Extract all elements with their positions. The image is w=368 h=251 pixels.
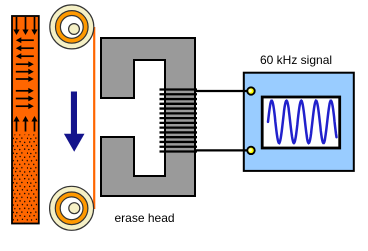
sine wave — [268, 101, 337, 143]
domain arrows: right group 1 — [16, 61, 34, 82]
terminal top — [247, 87, 254, 94]
tape strip (magnified view) — [12, 16, 39, 224]
signal generator box — [244, 73, 354, 171]
domain arrows: up group — [13, 116, 37, 132]
svg-text:erase head: erase head — [115, 211, 175, 225]
erased (demagnetized) tape section stipple — [13, 135, 38, 223]
erase head core — [101, 38, 195, 196]
domain arrows: right group 2 — [16, 88, 34, 109]
wire top — [196, 90, 248, 92]
wire bottom — [196, 149, 248, 151]
domain arrows: down group — [13, 17, 37, 35]
bottom roller — [50, 186, 94, 230]
terminal bottom — [247, 147, 254, 154]
svg-text:60 kHz signal: 60 kHz signal — [260, 53, 332, 67]
coil on core — [160, 90, 198, 152]
tape motion arrow — [64, 92, 85, 152]
tape line between rollers — [93, 27, 95, 209]
domain arrows: left group — [16, 37, 34, 59]
oscilloscope screen — [262, 97, 340, 148]
top roller — [50, 5, 94, 49]
